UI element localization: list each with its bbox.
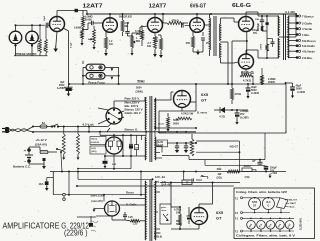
tube V1b 12AT7 bbox=[103, 18, 118, 33]
wire 6X5b plate bbox=[199, 182, 213, 208]
wire mains split bbox=[27, 126, 34, 134]
label R3 bbox=[85, 16, 93, 22]
resistor R21 lower bbox=[179, 210, 182, 229]
label 6X5 GT 1 bbox=[201, 92, 209, 103]
svg-text:KΩ: KΩ bbox=[147, 44, 151, 48]
svg-text:(A.28F): (A.28F) bbox=[240, 116, 249, 119]
ground pot bbox=[92, 47, 95, 50]
label 6.3V 03A bbox=[157, 140, 168, 147]
resistor R22 125 bbox=[130, 220, 140, 226]
svg-text:12V...2A: 12V...2A bbox=[155, 175, 165, 179]
svg-text:ricev.: ricev. bbox=[161, 210, 167, 212]
transformer T4 secondary bbox=[154, 181, 157, 240]
svg-text:GT: GT bbox=[201, 98, 207, 103]
wire rail drop R10 bbox=[162, 13, 164, 23]
vibrator inset bbox=[277, 198, 298, 209]
svg-text:10000: 10000 bbox=[261, 43, 263, 50]
socket voltage selector bbox=[106, 108, 122, 124]
ground vib2 bbox=[89, 208, 105, 227]
tube V4 6L6a bbox=[239, 17, 254, 32]
terminal F1b bbox=[235, 217, 243, 220]
wire T1 sec center bbox=[221, 42, 229, 84]
wire 6V6 out bbox=[204, 24, 211, 26]
box filter network bbox=[159, 84, 286, 133]
ground vib bbox=[77, 156, 131, 170]
ground battery bbox=[42, 166, 46, 169]
wire V1a plate to rail bbox=[57, 9, 87, 17]
ground R11 bbox=[159, 55, 163, 58]
box vibrator label bbox=[90, 137, 106, 155]
wire inset row2 top bbox=[243, 218, 295, 220]
resistor R16 bbox=[176, 117, 192, 120]
capacitor C11 vib buffer bbox=[129, 134, 133, 157]
wire V1b plate bbox=[109, 13, 111, 18]
wire 6X5a cath bbox=[182, 102, 196, 111]
label vibratore bbox=[91, 138, 100, 154]
svg-text:Rosso: Rosso bbox=[126, 191, 134, 195]
svg-text:(7Ω): (7Ω) bbox=[245, 176, 250, 179]
svg-text:100/52: 100/52 bbox=[243, 165, 251, 168]
label 5000 500V bbox=[173, 118, 179, 126]
capacitor C18 vib gnd bbox=[103, 155, 118, 166]
wire box inner bbox=[231, 109, 248, 111]
svg-text:0.05MΩ: 0.05MΩ bbox=[74, 27, 83, 30]
capacitor C16 lower bbox=[187, 210, 192, 224]
tube heater 5054 bbox=[249, 198, 261, 210]
wire inset row1 top bbox=[243, 197, 281, 199]
resistor R1 0.68M bbox=[39, 25, 42, 56]
ground C8 bbox=[235, 122, 238, 125]
pencil note bbox=[90, 221, 98, 232]
svg-text:50V: 50V bbox=[253, 33, 258, 35]
wire buffer top bbox=[160, 128, 197, 144]
tube V7 6X5b bbox=[191, 208, 208, 225]
label R11 bbox=[153, 36, 159, 43]
terminal 6 B.Giallo bbox=[288, 44, 315, 48]
ground ballast1 bbox=[62, 158, 65, 160]
ground R7 bbox=[130, 53, 133, 56]
svg-text:6 B.Giallo: 6 B.Giallo bbox=[302, 44, 315, 48]
wire T1 to 6L6a grid bbox=[221, 18, 239, 22]
resistor R3c tone bbox=[81, 30, 84, 43]
phono jack P2 bbox=[86, 73, 105, 79]
capacitor C13 buffer2 bbox=[184, 143, 188, 153]
label C10 bbox=[296, 85, 306, 94]
wire twisted pair bbox=[9, 129, 27, 132]
svg-text:MΩ: MΩ bbox=[154, 39, 158, 43]
resistor R20 box bbox=[182, 180, 192, 185]
resistor R4 vol pot bbox=[88, 26, 96, 46]
svg-text:50Hz: 50Hz bbox=[137, 80, 145, 84]
resistor R9 cathode V2 bbox=[153, 33, 156, 54]
svg-text:(3Ω): (3Ω) bbox=[216, 176, 221, 179]
tube V6 6X5a bbox=[174, 91, 191, 108]
svg-text:A.2940: A.2940 bbox=[251, 92, 260, 95]
svg-text:6SL7GT: 6SL7GT bbox=[289, 200, 298, 202]
resistor R5 cathode V1b bbox=[104, 31, 107, 52]
svg-text:20Ω: 20Ω bbox=[217, 168, 222, 171]
capacitor C1 grid bbox=[46, 23, 49, 28]
label C9 bbox=[251, 86, 260, 95]
wire 228 drop bbox=[227, 83, 229, 85]
svg-text:10K: 10K bbox=[255, 19, 259, 21]
wire phono wiring bbox=[82, 67, 120, 85]
terminal 7 Bianco bbox=[288, 14, 314, 18]
tube V5 6L6b bbox=[239, 54, 254, 69]
svg-text:(20A 6V): (20A 6V) bbox=[35, 143, 47, 147]
svg-text:12AU7: 12AU7 bbox=[290, 202, 297, 205]
wire HV taps bbox=[154, 92, 173, 129]
svg-text:(2080): (2080) bbox=[136, 91, 143, 94]
tube heater r2b bbox=[257, 221, 266, 230]
svg-text:250: 250 bbox=[186, 41, 191, 45]
ground bleeder bbox=[166, 127, 169, 132]
wire 196 junction bbox=[195, 83, 197, 129]
label L954 bbox=[154, 232, 162, 239]
svg-text:4 B.Verde: 4 B.Verde bbox=[302, 50, 315, 54]
svg-text:G.25: G.25 bbox=[91, 148, 97, 150]
resistor R6 plate V1b bbox=[121, 14, 124, 36]
ground F3 bbox=[45, 185, 49, 191]
wire vib2 bottom bbox=[77, 217, 145, 221]
wire 50Hz bus bbox=[68, 83, 286, 85]
resistor R26 cathode 6L6 bbox=[240, 69, 254, 85]
svg-text:MΩ: MΩ bbox=[136, 32, 140, 36]
wire top rail bbox=[86, 13, 296, 15]
label 5W bbox=[176, 220, 182, 226]
wire selector to trafo bbox=[114, 97, 145, 101]
fuse F2 batt bbox=[40, 151, 57, 154]
terminal 5 Giallo bbox=[288, 21, 312, 25]
transformer T4 primary bbox=[144, 181, 147, 240]
svg-text:6X5: 6X5 bbox=[201, 92, 209, 97]
capacitor C17 vib2 bbox=[123, 212, 133, 220]
svg-text:Bianco G.: Bianco G. bbox=[125, 128, 139, 132]
label R5 bbox=[109, 40, 113, 46]
wire battery minus bbox=[29, 158, 46, 164]
wire T3 heater taps bbox=[155, 146, 162, 158]
wire phono to grid bbox=[82, 61, 84, 64]
svg-text:4.7KΩ: 4.7KΩ bbox=[243, 79, 252, 83]
terminal 8 B.Rosso bbox=[288, 39, 316, 43]
svg-text:500V: 500V bbox=[173, 122, 179, 126]
ground C19 bbox=[67, 94, 71, 97]
ground V2 cathode bbox=[153, 54, 157, 57]
svg-text:1.25: 1.25 bbox=[133, 223, 138, 226]
transformer T1 secondary bbox=[219, 18, 222, 63]
mic jack J2 bbox=[26, 25, 39, 56]
svg-text:3A: 3A bbox=[42, 121, 46, 125]
wire T4 taps bbox=[155, 192, 160, 229]
wire leftbottom bbox=[53, 194, 145, 196]
svg-text:(vers.12V): (vers.12V) bbox=[91, 194, 104, 198]
wire mic bus bbox=[15, 24, 45, 26]
ground C9 bbox=[246, 96, 249, 99]
terminal 4 Verde bbox=[288, 27, 312, 31]
svg-text:4.7Ω: 4.7Ω bbox=[219, 115, 225, 119]
wire bus 186 bbox=[76, 185, 234, 187]
svg-text:6V6-GT: 6V6-GT bbox=[190, 4, 207, 10]
svg-text:470Ω: 470Ω bbox=[235, 92, 241, 96]
wire mains lower run bbox=[33, 127, 196, 133]
label C19 bbox=[57, 81, 65, 90]
svg-text:2 B.Blu.: 2 B.Blu. bbox=[302, 56, 313, 60]
label R8 bbox=[135, 29, 141, 36]
label R6 bbox=[119, 15, 133, 28]
ground 6V6 cath bbox=[193, 50, 203, 55]
svg-text:G: G bbox=[268, 205, 270, 207]
svg-text:50µF: 50µF bbox=[44, 15, 46, 21]
wire screen column bbox=[266, 15, 275, 59]
svg-text:50KΩ: 50KΩ bbox=[119, 15, 125, 18]
wire right col bbox=[295, 36, 297, 38]
svg-text:0.1µF: 0.1µF bbox=[70, 42, 72, 48]
terminal pair lower bbox=[63, 193, 66, 200]
svg-text:0.3A: 0.3A bbox=[158, 144, 163, 147]
label R18 bbox=[216, 168, 222, 180]
resistor R24 ballast2 bbox=[77, 127, 80, 157]
tube heater r2d bbox=[276, 221, 285, 230]
plug AC mains bbox=[2, 127, 9, 133]
vibrator VB2 bbox=[105, 201, 120, 216]
capacitor C3 coupling2 bbox=[125, 22, 129, 36]
svg-text:0.68: 0.68 bbox=[125, 23, 130, 25]
svg-text:0.68MΩ: 0.68MΩ bbox=[38, 43, 40, 51]
svg-text:6X5: 6X5 bbox=[216, 210, 224, 215]
resistor R7 grid V2 bbox=[131, 33, 136, 52]
svg-text:+: + bbox=[24, 149, 26, 153]
resistor R12 cathode 6V6 bbox=[191, 32, 194, 52]
svg-text:R: R bbox=[186, 181, 188, 185]
svg-text:1µF: 1µF bbox=[252, 159, 257, 162]
resistor R15 bleeder bbox=[167, 113, 170, 128]
svg-text:G.229 (6V): G.229 (6V) bbox=[300, 218, 303, 230]
resistor R10 47K plate bbox=[163, 21, 188, 24]
svg-text:Batteria C.C.: Batteria C.C. bbox=[13, 165, 31, 169]
wire bus152 bbox=[162, 133, 265, 173]
svg-text:6.3 V alt.: 6.3 V alt. bbox=[83, 123, 95, 127]
svg-text:Giallo 110 V: Giallo 110 V bbox=[125, 111, 141, 115]
tube heater r2a bbox=[247, 221, 256, 230]
battery B1 bbox=[24, 148, 33, 164]
transformer T2 secondary bbox=[287, 16, 290, 58]
svg-text:4 Verde: 4 Verde bbox=[302, 27, 312, 31]
resistor R25 feedback bbox=[261, 68, 264, 84]
label 100uF bbox=[252, 30, 263, 50]
ground tone bbox=[80, 43, 83, 46]
tube V3 6V6GT bbox=[190, 18, 205, 33]
terminal 2 B.Blu bbox=[288, 56, 313, 60]
resistor R8 0.47M bbox=[140, 25, 143, 46]
wire mic ground line bbox=[14, 55, 48, 57]
svg-text:10A: 10A bbox=[38, 182, 43, 186]
svg-text:1-25: 1-25 bbox=[135, 148, 139, 150]
tube V1a 12AT7 bbox=[50, 17, 65, 32]
svg-text:(12V): (12V) bbox=[91, 151, 97, 153]
coil RF choke bbox=[190, 134, 194, 156]
resistor R11 0.47M 6V6 grid bbox=[158, 35, 163, 54]
diode D1 bbox=[214, 107, 232, 113]
resistor R17 vib bbox=[135, 135, 139, 156]
label C8 bbox=[240, 110, 249, 119]
terminal F2b bbox=[235, 230, 243, 233]
wire vib2 net bbox=[69, 172, 154, 221]
box primario bbox=[160, 204, 171, 224]
terminal F1a bbox=[235, 197, 243, 201]
svg-text:0.25: 0.25 bbox=[128, 216, 133, 219]
capacitor C5 bypass bbox=[201, 32, 205, 52]
wire vib net bbox=[100, 132, 146, 157]
transformer T3 HV secondary bbox=[154, 98, 157, 160]
capacitor C15 250uF bbox=[264, 165, 269, 172]
wire inset row2 bottom bbox=[243, 229, 295, 232]
terminal F2a bbox=[235, 212, 243, 215]
box filament inset bbox=[234, 188, 315, 239]
wire OT primary CT bbox=[279, 36, 296, 38]
capacitor C9 40uF bbox=[246, 83, 251, 95]
label trafo colors bbox=[158, 124, 167, 135]
label 63Valt2 bbox=[54, 126, 56, 128]
tube heater r2c bbox=[266, 221, 275, 230]
wire right drop bbox=[285, 131, 287, 133]
label 2.2M bbox=[268, 78, 276, 84]
wire bus 171 bbox=[50, 171, 286, 173]
svg-text:8 B.Rosso: 8 B.Rosso bbox=[302, 39, 316, 43]
phono jack P1 bbox=[86, 64, 105, 70]
wire B+ takeoff bbox=[195, 84, 197, 111]
label 47K lower bbox=[174, 209, 181, 215]
ground V1a cathode bbox=[53, 32, 58, 53]
svg-text:4.7KΩ 1W: 4.7KΩ 1W bbox=[181, 112, 194, 116]
svg-text:KΩ: KΩ bbox=[109, 43, 113, 46]
switch relay contacts bbox=[184, 171, 209, 181]
wire battery plus bbox=[29, 147, 40, 151]
tube heater r2e bbox=[285, 221, 294, 230]
svg-text:(6V…4A): (6V…4A) bbox=[155, 180, 166, 184]
resistor R2 1M bbox=[45, 25, 48, 56]
svg-text:5054: 5054 bbox=[136, 87, 142, 90]
label 5054 2080 bbox=[136, 87, 143, 94]
svg-text:6L6-G: 6L6-G bbox=[241, 70, 255, 75]
wire mains upper run bbox=[62, 123, 112, 128]
terminal 4 B.Verde bbox=[288, 50, 315, 54]
label R19 bbox=[243, 165, 251, 179]
svg-text:5054: 5054 bbox=[252, 201, 258, 204]
ground C10 bbox=[291, 96, 294, 99]
svg-text:5 Giallo: 5 Giallo bbox=[302, 21, 312, 25]
svg-text:AMPLIFICATORE: AMPLIFICATORE bbox=[3, 221, 60, 231]
svg-text:prim.: prim. bbox=[161, 207, 167, 209]
svg-text:(505.6): (505.6) bbox=[154, 236, 162, 239]
svg-text:6L6-G: 6L6-G bbox=[232, 3, 251, 9]
svg-text:Vibrat.: Vibrat. bbox=[91, 138, 98, 141]
svg-text:B. Giallo: B. Giallo bbox=[126, 203, 137, 207]
wire inset row1 bottom bbox=[243, 209, 291, 214]
svg-text:1MΩ: 1MΩ bbox=[44, 46, 46, 51]
capacitor C8 250uF bbox=[235, 109, 240, 121]
svg-text:1 Blu.: 1 Blu. bbox=[302, 33, 310, 37]
capacitor C6 plate a bbox=[260, 15, 264, 25]
capacitor C14 1uF bbox=[258, 159, 263, 166]
label 10A bbox=[38, 181, 48, 185]
transformer T3 core bbox=[150, 96, 152, 162]
mic jack J1 bbox=[9, 25, 22, 56]
wire selector feeds bbox=[98, 101, 124, 124]
capacitor C2 coupling bbox=[83, 21, 103, 30]
svg-text:−: − bbox=[24, 160, 26, 164]
ground C15 bbox=[269, 174, 272, 179]
wire lower net bbox=[171, 206, 199, 230]
resistor R3 plate V1a bbox=[82, 11, 85, 31]
ground V1b cathode bbox=[104, 53, 108, 56]
svg-text:+ 50Ω: + 50Ω bbox=[271, 172, 278, 175]
svg-text:Vibrat.: Vibrat. bbox=[289, 206, 296, 209]
switch SW2 battery bbox=[56, 148, 63, 172]
svg-text:R.632: R.632 bbox=[126, 15, 133, 18]
capacitor C4 to 6V6 bbox=[182, 22, 190, 27]
svg-text:Collegam. Filam. alim. batt.: Collegam. Filam. alim. batt. 6 V bbox=[236, 234, 295, 238]
svg-text:G.24 6V: G.24 6V bbox=[91, 141, 100, 144]
label 6X5 GT 2 bbox=[216, 210, 224, 221]
wire T1 to 6L6b grid bbox=[221, 62, 239, 63]
transformer T4 core bbox=[150, 180, 152, 241]
capacitor C10 40uF bbox=[285, 82, 295, 94]
svg-text:12AT7: 12AT7 bbox=[149, 4, 167, 10]
svg-text:20000: 20000 bbox=[268, 81, 276, 84]
wire midcap join bbox=[262, 25, 267, 31]
capacitor C19 8uF bbox=[64, 87, 74, 93]
resistor R13 10K bbox=[261, 26, 263, 31]
wire V2 plate bbox=[154, 14, 156, 18]
tube heater 6L6i bbox=[262, 198, 274, 210]
transformer T2 core bbox=[283, 14, 285, 60]
tube V2 12AT7 bbox=[148, 18, 163, 33]
svg-text:12AT7: 12AT7 bbox=[83, 4, 103, 10]
svg-text:MΩ: MΩ bbox=[136, 40, 140, 43]
transformer T3 primary bbox=[144, 97, 147, 160]
svg-text:100µF: 100µF bbox=[252, 30, 259, 32]
wire 6L6 cathodes bbox=[231, 32, 248, 86]
svg-text:(229/6 ): (229/6 ) bbox=[64, 228, 88, 238]
wire OT top feed bbox=[277, 13, 297, 37]
transformer T1 primary bbox=[209, 14, 212, 56]
transformer T2 primary bbox=[277, 16, 279, 58]
svg-text:Colleg. Filam. alim. batteria: Colleg. Filam. alim. batteria 12V bbox=[236, 190, 287, 194]
svg-text:B. verso: B. verso bbox=[197, 111, 208, 115]
wire 6V6 plate bbox=[196, 14, 198, 18]
label R7 bbox=[136, 37, 140, 43]
wire 6L6b plate bbox=[246, 50, 277, 58]
transformer T1 core bbox=[214, 16, 216, 56]
fuse F3 10A bbox=[47, 172, 54, 195]
wire C3 to V2 grid bbox=[128, 26, 148, 37]
svg-text:GT: GT bbox=[216, 216, 222, 221]
switch SW1 bbox=[51, 124, 62, 128]
label C15 bbox=[270, 167, 277, 176]
svg-text:(vers.6V): (vers.6V) bbox=[91, 199, 102, 203]
resistor R18 20ohm bbox=[227, 170, 239, 173]
svg-text:6X5-GT: 6X5-GT bbox=[230, 146, 239, 149]
ground ballast2 bbox=[77, 158, 80, 160]
svg-text:A.2080: A.2080 bbox=[57, 87, 65, 90]
svg-text:A.2940: A.2940 bbox=[297, 91, 306, 94]
resistor R23 ballast1 bbox=[62, 127, 65, 157]
fuse F1 3A bbox=[33, 125, 52, 128]
svg-text:+6÷12 V: +6÷12 V bbox=[35, 138, 46, 142]
svg-text:47KΩ: 47KΩ bbox=[171, 19, 179, 23]
capacitor C12 buffer bbox=[175, 143, 179, 153]
wire lower section top bbox=[160, 182, 240, 208]
